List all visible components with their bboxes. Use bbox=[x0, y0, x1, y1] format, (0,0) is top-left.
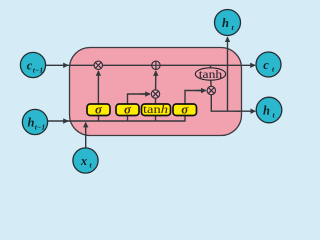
gate tanh box bbox=[142, 104, 171, 116]
wire stub to tanh box bbox=[155, 116, 157, 122]
svg-text:σ: σ bbox=[124, 101, 132, 116]
wire stub to sigma1 bbox=[98, 116, 100, 122]
svg-text:x: x bbox=[80, 154, 87, 168]
gate sigma1 box bbox=[87, 101, 110, 116]
node h_t (top output) bbox=[215, 10, 241, 36]
wire stub to sigma2 bbox=[127, 116, 129, 122]
wire x_t up into h-line bbox=[85, 123, 87, 148]
node h_{t-1} bbox=[22, 109, 47, 134]
wire sigma2 up and right into input multiply bbox=[128, 94, 147, 104]
op output multiply bbox=[207, 86, 215, 94]
wire c-line branch down to tanh ellipse bbox=[210, 65, 212, 68]
svg-text:tanh: tanh bbox=[199, 69, 223, 81]
wire c-line: add to c_t bbox=[160, 64, 255, 66]
wire c-line: c_{t-1} into cell bbox=[46, 64, 69, 66]
svg-text:h: h bbox=[263, 104, 270, 118]
wire sigma3 up and right into output multiply bbox=[185, 91, 202, 105]
tanh ellipse bbox=[195, 68, 225, 81]
LSTM cell body (pink rounded box) bbox=[70, 48, 242, 136]
svg-text:σ: σ bbox=[181, 101, 189, 116]
wire h-line: across to output gate bbox=[66, 116, 185, 122]
svg-text:h: h bbox=[28, 116, 35, 130]
svg-text:c: c bbox=[263, 58, 269, 72]
wire branch up to h_t top output bbox=[227, 37, 229, 111]
wire c-line: border to forget gate multiply bbox=[66, 64, 94, 66]
svg-text:t−1: t−1 bbox=[33, 66, 43, 75]
svg-text:tanh: tanh bbox=[143, 104, 168, 116]
op input multiply bbox=[151, 90, 159, 98]
gate sigma3 box bbox=[173, 101, 197, 116]
svg-text:h: h bbox=[222, 16, 229, 30]
wire c-line: multiply to add bbox=[102, 64, 152, 66]
wire output multiply down then right to h_t bbox=[211, 95, 240, 112]
wire tanh ellipse down to output multiply bbox=[210, 80, 213, 87]
op forget multiply bbox=[94, 61, 102, 69]
wire tanh box up to input multiply bbox=[155, 98, 157, 104]
node h_t (right output) bbox=[256, 97, 282, 123]
node c_{t-1} bbox=[20, 52, 45, 77]
node x_t bbox=[73, 148, 98, 173]
svg-text:σ: σ bbox=[95, 101, 103, 116]
node c_t bbox=[256, 52, 281, 77]
svg-text:t−1: t−1 bbox=[35, 123, 45, 132]
op add bbox=[152, 61, 160, 69]
wire sigma1 up to forget multiply bbox=[97, 71, 99, 104]
wire h-line: h_{t-1} into cell bbox=[48, 120, 69, 122]
wire input multiply up to add bbox=[155, 71, 157, 90]
gate sigma2 box bbox=[116, 101, 139, 116]
